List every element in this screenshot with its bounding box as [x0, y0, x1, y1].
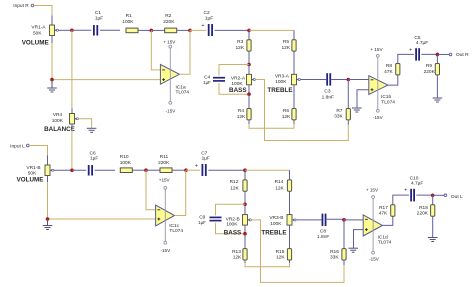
svg-text:+ 15V: + 15V	[163, 39, 176, 44]
svg-text:R11: R11	[160, 154, 169, 160]
svg-text:220K: 220K	[158, 160, 170, 166]
svg-text:R17: R17	[379, 205, 388, 211]
node Input R terminal	[31, 4, 34, 7]
node J1 (volume wiper R)	[70, 29, 74, 33]
resistor R12 12K	[243, 180, 247, 191]
wire stub R6 bottom	[293, 120, 295, 124]
svg-text:C3: C3	[324, 89, 330, 95]
capacitor C4 1uF	[213, 78, 225, 81]
wire VR1-A wiper to node J1	[58, 29, 72, 31]
ground (R9)	[433, 98, 443, 102]
svg-text:1µF: 1µF	[202, 156, 210, 162]
node J16 (output L)	[431, 194, 435, 198]
capacitor C8 1.8nF	[322, 214, 325, 226]
svg-text:R7: R7	[336, 108, 342, 114]
wire Input R to VR1-A top	[34, 6, 52, 16]
node J8 (output R)	[436, 53, 440, 57]
wire J8 to Out R terminal	[437, 53, 449, 55]
svg-text:R15: R15	[276, 249, 285, 255]
wire J11 to C7	[186, 169, 200, 171]
svg-text:R8: R8	[386, 63, 392, 69]
op-amp IC1b	[369, 76, 388, 95]
svg-text:+: +	[404, 188, 407, 194]
power -15V pin IC1c	[164, 241, 167, 244]
capacitor C2 1uF	[202, 23, 213, 36]
wire J10 to R11	[146, 169, 160, 171]
wire IC1b non-inverting input to ground	[357, 90, 369, 108]
node ground junction (R volume)	[50, 78, 54, 82]
svg-text:TL074: TL074	[378, 240, 392, 246]
svg-text:4.7µF: 4.7µF	[411, 180, 423, 186]
svg-text:1.8nF: 1.8nF	[317, 234, 329, 240]
wire stub VR4 top	[71, 109, 73, 115]
svg-text:+ 15V: + 15V	[366, 188, 379, 193]
capacitor C9 1uF	[210, 217, 222, 220]
svg-text:TL074: TL074	[176, 90, 190, 96]
wire J2 to R2	[151, 29, 164, 31]
capacitor C3 1.8nF	[327, 73, 330, 85]
power -15V pin IC1b	[376, 109, 379, 112]
svg-text:VR4: VR4	[53, 112, 63, 118]
svg-text:VOLUME: VOLUME	[17, 176, 44, 183]
wire VR1-B wiper to node J9	[54, 169, 72, 171]
svg-text:+ 15V: + 15V	[370, 47, 383, 52]
resistor R13 12K	[243, 249, 247, 260]
node J14 (bass bottom L)	[243, 232, 247, 236]
wire J9 to C6	[72, 169, 86, 171]
wire stub R15 bottom	[289, 260, 291, 263]
resistor R2 220K	[165, 28, 177, 33]
svg-text:+15V: +15V	[159, 178, 171, 183]
svg-text:R4: R4	[238, 108, 244, 114]
svg-text:100K: 100K	[226, 222, 238, 228]
node J5 (bass top R)	[247, 63, 251, 67]
resistor R11 220K	[160, 168, 172, 173]
svg-text:R18: R18	[419, 205, 428, 211]
power +15V pin IC1d	[372, 196, 375, 199]
wire stub VR1-B top	[47, 156, 49, 166]
svg-text:BALANCE: BALANCE	[44, 126, 75, 133]
wire stub R7 bottom	[347, 120, 349, 125]
wire R3 to J5	[248, 51, 250, 64]
svg-text:1µF: 1µF	[90, 156, 98, 162]
svg-text:R2: R2	[165, 13, 171, 19]
node J13 (bass top L)	[243, 203, 247, 207]
wire power rail IC1d	[372, 198, 374, 251]
capacitor C1 1uF	[94, 25, 97, 36]
resistor R7 33K	[346, 109, 350, 120]
resistor R10 100K	[120, 168, 132, 173]
resistor R3 12K	[247, 40, 251, 51]
ground (balance wiper)	[87, 128, 97, 132]
wire treble column L to R14	[289, 170, 291, 180]
capacitor C10 4.7uF	[404, 188, 414, 202]
wire stub VR1-B bottom	[47, 176, 49, 183]
svg-text:VOLUME: VOLUME	[22, 40, 49, 47]
resistor R1 100K	[126, 28, 138, 33]
wire R7 bottom feedback to VR2-A wiper	[256, 80, 349, 141]
wire J12 to R12	[244, 170, 246, 180]
svg-text:BASS: BASS	[224, 230, 242, 237]
svg-text:TREBLE: TREBLE	[267, 87, 292, 94]
wire Input L to VR1-B top	[29, 146, 47, 156]
wire J2 down to IC1a inverting input	[151, 30, 160, 70]
svg-text:IC1b: IC1b	[381, 94, 391, 100]
svg-text:-15V: -15V	[369, 257, 380, 262]
svg-text:12K: 12K	[282, 114, 291, 120]
potentiometer VR4 100K BALANCE	[70, 114, 79, 125]
wire J15 to IC1d inverting input	[344, 219, 363, 221]
node ground junction (L volume)	[46, 217, 50, 221]
svg-text:VR3-A: VR3-A	[275, 73, 290, 79]
svg-text:100K: 100K	[270, 221, 282, 227]
wire J13 to C9 top	[216, 204, 246, 215]
svg-text:R10: R10	[120, 154, 129, 160]
wire J16 to Out L terminal	[433, 194, 444, 196]
svg-text:100K: 100K	[120, 160, 132, 166]
wire stub R4 bottom	[248, 120, 250, 124]
op-amp IC1d	[363, 215, 382, 236]
svg-text:12K: 12K	[275, 185, 284, 191]
wire stub VR1-A top	[51, 16, 53, 26]
ground (IC1d +input)	[348, 248, 358, 252]
wire power rail IC1b	[377, 57, 379, 109]
svg-text:R13: R13	[232, 249, 241, 255]
svg-text:+: +	[202, 23, 205, 29]
svg-text:R14: R14	[275, 179, 284, 185]
svg-text:12K: 12K	[230, 185, 239, 191]
svg-text:100K: 100K	[275, 79, 287, 85]
svg-text:12K: 12K	[237, 114, 246, 120]
svg-text:IC1a: IC1a	[176, 84, 186, 90]
svg-text:Out L: Out L	[451, 194, 463, 200]
wire J13 to VR2-B top	[244, 204, 246, 214]
op-amp IC1c	[156, 205, 175, 226]
node J12 (tone input L)	[243, 168, 247, 172]
capacitor C5 4.7uF	[409, 47, 419, 60]
svg-text:12K: 12K	[276, 255, 285, 261]
wire J6 to R4	[248, 94, 250, 108]
wire VR3-A wiper to C3	[300, 78, 326, 80]
wire VR3-B wiper to C8	[296, 219, 322, 221]
capacitor C7 1uF	[195, 163, 206, 176]
svg-text:-15V: -15V	[373, 115, 384, 120]
power -15V pin IC1a	[169, 101, 172, 104]
svg-text:VR1-A: VR1-A	[31, 25, 46, 31]
svg-text:R5: R5	[283, 39, 289, 45]
svg-text:R16: R16	[330, 249, 339, 255]
wire IC1b output to R8	[388, 75, 398, 85]
potentiometer VR2-B 100K BASS	[243, 215, 252, 226]
svg-text:1.8nF: 1.8nF	[322, 94, 334, 100]
svg-text:-15V: -15V	[160, 248, 171, 253]
wire J14 to R13	[244, 234, 246, 249]
wire power rail IC1c	[164, 189, 166, 241]
svg-text:47K: 47K	[379, 211, 388, 217]
capacitor C6 1uF	[89, 165, 92, 176]
svg-text:4.7µF: 4.7µF	[416, 40, 428, 46]
svg-text:Out R: Out R	[456, 52, 469, 58]
wire C5 to J8	[421, 53, 437, 55]
wire R17 top to C10	[393, 195, 409, 205]
node J7 (IC1b inverting input)	[347, 78, 351, 82]
node J4 (tone input R)	[247, 29, 251, 33]
resistor R17 47K	[391, 205, 395, 216]
power +15V pin IC1b	[376, 54, 379, 57]
wire J16 to R18	[432, 195, 434, 205]
wire IC1a output feedback to J3	[179, 30, 190, 74]
power +15V pin IC1a	[169, 45, 172, 48]
svg-text:TL074: TL074	[381, 100, 395, 106]
wire IC1d non-inverting input to ground	[354, 230, 364, 249]
wire VR4 wiper to ground	[78, 119, 91, 129]
svg-text:+: +	[409, 47, 412, 53]
wire IC1c output feedback to J11	[175, 170, 186, 215]
ground (R18)	[428, 238, 438, 242]
wire stub VR1-A bottom	[51, 36, 53, 44]
wire R12 to J13	[244, 191, 246, 204]
wire to ground	[51, 80, 53, 88]
svg-text:VR2-B: VR2-B	[226, 216, 240, 222]
wire J4 to R3	[248, 30, 250, 39]
wire R2 to J3	[177, 29, 190, 31]
wire VR3-A bottom to R6	[293, 85, 295, 109]
resistor R5 12K	[292, 40, 296, 51]
wire C8 to J15	[327, 218, 344, 220]
wire VR1-A bottom to ground node	[51, 43, 53, 80]
wire R9 to ground	[436, 75, 438, 98]
wire stub VR4 bottom	[71, 124, 73, 130]
node Out R terminal	[449, 53, 452, 56]
svg-text:12K: 12K	[233, 255, 242, 261]
potentiometer VR3-A 100K TREBLE	[292, 74, 301, 85]
svg-text:Input R: Input R	[13, 3, 29, 9]
wire C6 to R10	[95, 169, 115, 171]
resistor R9 220K	[435, 64, 439, 75]
svg-text:IC1c: IC1c	[169, 223, 179, 229]
wire J4 to treble column R	[249, 29, 294, 31]
node Input L terminal	[27, 144, 30, 147]
wire R1 to J2	[138, 29, 151, 31]
wire R10 to J10	[132, 169, 146, 171]
wire C9 bottom to J14	[216, 223, 246, 234]
wire J8 to R9	[436, 54, 438, 63]
svg-text:12K: 12K	[236, 45, 245, 51]
node J10 (IC1c inverting input net)	[144, 168, 148, 172]
svg-text:220K: 220K	[424, 69, 436, 75]
svg-text:R1: R1	[126, 13, 132, 19]
svg-text:TREBLE: TREBLE	[261, 230, 286, 237]
wire R16 bottom feedback to VR2-B wiper	[251, 220, 344, 283]
svg-text:R6: R6	[283, 108, 289, 114]
wire R18 to ground	[432, 216, 434, 237]
resistor R15 12K	[287, 249, 291, 260]
resistor R16 33K	[342, 249, 346, 260]
wire VR2-A bottom to J6	[248, 85, 250, 94]
wire C2 to J4	[215, 29, 249, 31]
wire power rail IC1a	[169, 48, 171, 101]
wire J7 to IC1b inverting input	[348, 79, 369, 81]
potentiometer VR1-A 50K VOLUME	[50, 25, 59, 36]
wire VR4 bottom to node J9	[71, 130, 73, 171]
node J15 (IC1d inverting input)	[342, 218, 346, 222]
wire R13 bottom bus to R15 bottom	[245, 263, 290, 267]
wire R8 top to C5	[398, 54, 414, 63]
wire J1 to C1	[72, 29, 91, 31]
node Out L terminal	[444, 194, 447, 197]
svg-text:VR3-B: VR3-B	[269, 215, 283, 221]
wire J3 to C2	[190, 29, 206, 31]
node J6 (bass bottom R)	[247, 92, 251, 96]
svg-text:220K: 220K	[163, 19, 175, 25]
ground (IC1b +input)	[352, 108, 362, 112]
svg-text:VR2-A: VR2-A	[231, 76, 246, 82]
wire ground bus to IC1a non-inverting input	[52, 79, 160, 81]
resistor R14 12K	[287, 180, 291, 191]
power +15V pin IC1c	[164, 186, 167, 189]
wire R4 bottom bus to R6 bottom	[249, 124, 294, 128]
svg-text:33K: 33K	[334, 114, 343, 120]
svg-text:IC1d: IC1d	[378, 234, 388, 240]
svg-text:R3: R3	[237, 39, 243, 45]
wire R5 to VR3-A	[293, 51, 295, 74]
wire J7 down to R7	[347, 80, 349, 109]
wire C10 to J16	[416, 194, 432, 196]
wire VR3-B bottom to R15	[289, 225, 291, 249]
wire J5 to C4 top	[219, 65, 249, 76]
svg-text:TL074: TL074	[169, 228, 183, 234]
wire R11 to J11	[172, 169, 186, 171]
svg-text:VR1-B: VR1-B	[26, 165, 40, 171]
svg-text:1µF: 1µF	[205, 15, 213, 21]
wire J1 down to VR4 top	[71, 30, 73, 108]
wire VR1-B bottom to ground node	[47, 182, 49, 219]
node J11 (IC1c output net)	[184, 168, 188, 172]
ground (L volume)	[43, 226, 53, 230]
svg-text:47K: 47K	[384, 69, 393, 75]
wire treble column top to R5	[293, 30, 295, 39]
wire stub R16 bottom	[343, 260, 345, 265]
wire R14 to VR3-B	[289, 191, 291, 214]
svg-text:Input L: Input L	[10, 143, 25, 149]
wire C7 to J12	[208, 169, 245, 171]
svg-text:50K: 50K	[33, 31, 42, 37]
svg-text:+: +	[195, 163, 198, 169]
svg-text:R12: R12	[230, 179, 239, 185]
wire to ground L	[47, 219, 49, 226]
op-amp IC1a	[160, 64, 179, 84]
svg-text:1µF: 1µF	[95, 15, 103, 21]
svg-text:12K: 12K	[282, 45, 291, 51]
svg-text:C2: C2	[204, 10, 210, 16]
svg-text:-15V: -15V	[166, 109, 177, 114]
wire VR2-B bottom to J14	[244, 225, 246, 234]
svg-text:C8: C8	[320, 228, 326, 234]
resistor R6 12K	[292, 109, 296, 120]
wire J15 down to R16	[343, 220, 345, 249]
svg-text:1µF: 1µF	[198, 220, 206, 225]
svg-text:100K: 100K	[122, 19, 134, 25]
svg-text:C1: C1	[95, 10, 101, 16]
wire C4 bottom to J6	[219, 83, 249, 94]
potentiometer VR1-B 50K VOLUME	[45, 165, 54, 176]
svg-text:R9: R9	[426, 63, 432, 69]
wire stub R13 bottom	[244, 260, 246, 263]
node J3 (IC1a output net)	[188, 29, 192, 33]
wire J12 to treble column L	[245, 169, 290, 171]
ground (R volume)	[47, 88, 57, 92]
resistor R18 220K	[431, 205, 435, 216]
wire J10 down to IC1c inverting input	[146, 170, 156, 210]
wire J5 to VR2-A top	[248, 65, 250, 75]
resistor R4 12K	[247, 109, 251, 120]
node J9 (volume wiper L)	[70, 168, 74, 172]
potentiometer VR3-B 100K TREBLE	[287, 215, 296, 226]
svg-text:33K: 33K	[330, 255, 339, 261]
wire IC1d output to R17	[382, 216, 392, 225]
svg-text:220K: 220K	[417, 211, 429, 217]
wire C3 to J7	[331, 78, 348, 80]
node J2 (IC1a inverting input net)	[150, 29, 154, 33]
svg-text:1µF: 1µF	[203, 80, 211, 85]
svg-text:100K: 100K	[52, 118, 64, 124]
potentiometer VR2-A 100K BASS	[247, 74, 256, 85]
resistor R8 47K	[396, 64, 400, 75]
wire ground bus to IC1c non-inverting input	[48, 218, 156, 220]
wire C1 to R1	[100, 29, 120, 31]
power -15V pin IC1d	[372, 251, 375, 254]
svg-text:BASS: BASS	[229, 87, 247, 94]
